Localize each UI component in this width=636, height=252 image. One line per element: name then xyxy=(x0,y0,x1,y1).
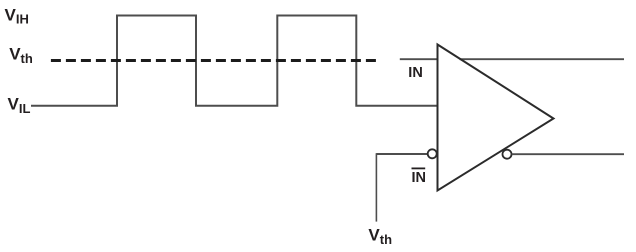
svg-text:Vth: Vth xyxy=(9,45,33,66)
wire OUT bottom xyxy=(512,153,624,155)
svg-text:IN: IN xyxy=(412,170,427,186)
wire /IN input xyxy=(376,153,427,155)
inversion bubble input xyxy=(428,149,437,158)
svg-text:Vth: Vth xyxy=(368,225,392,247)
input square wave xyxy=(31,16,437,106)
svg-text:IN: IN xyxy=(408,65,423,81)
wire V_th xyxy=(375,153,377,221)
label /IN xyxy=(412,168,427,186)
buffer U1 xyxy=(438,45,554,191)
wire IN input xyxy=(400,58,437,60)
threshold dashed line V_th xyxy=(51,59,376,62)
svg-text:VIL: VIL xyxy=(8,94,31,116)
wire OUT top xyxy=(460,58,625,60)
svg-text:VIH: VIH xyxy=(5,5,29,26)
inversion bubble output xyxy=(503,150,512,159)
